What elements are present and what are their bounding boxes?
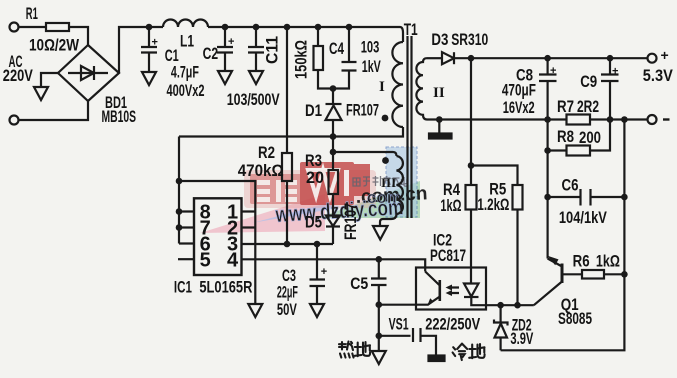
node: 5.3V rail xyxy=(544,55,551,62)
svg-text:C6: C6 xyxy=(562,176,579,195)
svg-text:+: + xyxy=(228,36,234,48)
watermark blue dashed box xyxy=(386,147,417,217)
wire: +DC rail after L1 xyxy=(208,27,403,42)
node: drain line D1 xyxy=(330,133,337,140)
watermark pink triangle xyxy=(200,194,325,233)
wire: C6/Q1 left rail xyxy=(546,151,548,259)
svg-text:VS1: VS1 xyxy=(389,315,409,334)
wire R4/R5 branch xyxy=(471,166,518,186)
svg-text:4: 4 xyxy=(227,250,239,272)
wire: secondary return rail xyxy=(427,118,648,120)
capacitor VS1 xyxy=(379,335,411,337)
watermark green triangle xyxy=(318,181,420,218)
wire opto emitter to C5 line xyxy=(379,304,416,306)
wire bridge left to ground xyxy=(41,73,58,87)
node: VS1 branch xyxy=(376,333,383,340)
svg-text:I: I xyxy=(379,79,385,95)
svg-text:1.2kΩ: 1.2kΩ xyxy=(477,195,509,214)
svg-text:4.7μF: 4.7μF xyxy=(171,63,199,82)
resistor R2 xyxy=(282,153,292,181)
wire IC1 pins 8/7/6 bus xyxy=(178,137,180,244)
svg-text:D5: D5 xyxy=(305,213,322,232)
svg-text:D1: D1 xyxy=(305,101,322,120)
transistor (IC2 photo-transistor) xyxy=(425,272,440,286)
resistor R5 xyxy=(513,185,523,210)
resistor R3 xyxy=(332,152,334,170)
ground (C2) xyxy=(218,71,232,84)
svg-text:D3: D3 xyxy=(431,30,448,49)
svg-text:S8085: S8085 xyxy=(558,309,592,328)
svg-text:5L0165R: 5L0165R xyxy=(199,278,252,297)
wire winding II ground stub xyxy=(438,120,440,134)
svg-text:C4: C4 xyxy=(329,39,344,58)
node: snubber junction xyxy=(330,85,337,92)
svg-text:+: + xyxy=(612,66,618,78)
wire R6 to right rail xyxy=(604,273,624,275)
capacitor C6 xyxy=(548,196,581,198)
wire IC1 pin5 stub xyxy=(178,258,194,260)
node: return rail xyxy=(436,116,443,123)
node: D3 cathode xyxy=(468,55,475,62)
transistor Q1 xyxy=(561,264,564,284)
zener ZD2 xyxy=(494,320,508,326)
bridge rectifier BD1 xyxy=(58,45,119,101)
svg-text:FR107: FR107 xyxy=(346,101,379,120)
svg-text:IC1: IC1 xyxy=(174,278,192,297)
node: C5 / opto emitter xyxy=(376,301,383,308)
diode (IC2 LED) xyxy=(464,284,479,297)
svg-text:470kΩ: 470kΩ xyxy=(238,161,284,180)
node: IC1 left bus xyxy=(176,178,183,185)
svg-text:104/1kV: 104/1kV xyxy=(559,208,607,227)
svg-text:C9: C9 xyxy=(580,72,597,91)
wire: IC pin4 line xyxy=(242,259,426,271)
svg-text:16Vx2: 16Vx2 xyxy=(503,98,535,117)
svg-text:PC817: PC817 xyxy=(430,246,466,265)
svg-text:II: II xyxy=(433,85,445,101)
light arrows (IC2) xyxy=(449,288,459,294)
watermark red glyph band xyxy=(244,170,376,208)
label hot ground (drawn CJK: di) xyxy=(355,342,370,356)
svg-text:5: 5 xyxy=(200,250,211,272)
node: pin4 line C5 xyxy=(376,256,383,263)
node: R6 right xyxy=(621,271,628,278)
ground (hot, C5 line) xyxy=(372,351,386,364)
wire: +DC rail xyxy=(119,27,163,73)
label cold ground (drawn CJK: di) xyxy=(469,344,484,358)
resistor R4 xyxy=(466,185,477,210)
svg-text:5.3V: 5.3V xyxy=(643,66,674,85)
capacitor C5 xyxy=(378,259,380,278)
input terminal bottom xyxy=(10,116,19,125)
wire drain to R3 node xyxy=(332,137,334,153)
wire winding III bottom lead xyxy=(380,214,397,226)
wire: right feedback rail xyxy=(501,120,625,351)
transformer T1 secondary winding II xyxy=(416,58,427,119)
watermark small gray text xyxy=(353,176,407,186)
resistor R6 xyxy=(582,270,604,279)
wire ZD2 top xyxy=(500,305,502,322)
output terminal plus xyxy=(648,54,657,63)
wire: drain line xyxy=(179,127,403,137)
svg-text:R1: R1 xyxy=(26,4,38,23)
node: emitter line xyxy=(497,302,504,309)
op-amp U1 opto-coupler IC2 PC817 box xyxy=(416,268,486,310)
ground (bridge AC side) xyxy=(34,87,48,100)
svg-text:150kΩ: 150kΩ xyxy=(292,40,311,79)
capacitor C2 xyxy=(224,27,226,46)
capacitor C11 xyxy=(255,27,257,46)
node: R4/R5 branch xyxy=(468,162,475,169)
winding I phase dot xyxy=(382,115,389,122)
svg-text:220V: 220V xyxy=(3,66,33,85)
svg-text:C2: C2 xyxy=(203,44,219,63)
node: R8 branch xyxy=(544,147,551,154)
wire R2 to pin3 line xyxy=(286,181,288,244)
capacitor C8 xyxy=(546,58,548,73)
svg-text:R7: R7 xyxy=(557,97,574,116)
wire winding III top lead xyxy=(333,152,397,156)
node: pin3 line xyxy=(284,241,291,248)
ground (C11) xyxy=(249,71,263,84)
diode D1 xyxy=(332,89,334,105)
wire R2 startup from rail xyxy=(286,27,288,153)
svg-text:ZD2: ZD2 xyxy=(512,316,532,335)
svg-text:C5: C5 xyxy=(350,274,368,293)
svg-text:SR310: SR310 xyxy=(451,30,488,49)
capacitor C9 xyxy=(609,58,611,73)
wire input top to R1 xyxy=(19,26,47,28)
transformer T1 primary winding I xyxy=(392,42,403,127)
svg-text:2R2: 2R2 xyxy=(577,97,599,116)
wire D3 node down to R4 xyxy=(470,58,472,185)
svg-text:T1: T1 xyxy=(404,20,418,39)
svg-text:+: + xyxy=(661,47,669,63)
ground bar (cold ground) xyxy=(429,356,445,362)
label hot ground (drawn CJK: re) xyxy=(339,342,354,358)
wire IC1 pin1/pin2 to ground bus xyxy=(179,181,255,304)
IC1 5L0165R box xyxy=(194,198,242,275)
input terminal top xyxy=(10,23,19,32)
svg-text:20: 20 xyxy=(306,168,324,187)
svg-text:1kV: 1kV xyxy=(362,57,381,76)
resistor R7 xyxy=(567,115,591,125)
wire R5 down xyxy=(516,210,518,306)
transformer T1 core xyxy=(408,36,412,218)
svg-text:+: + xyxy=(152,37,158,49)
svg-text:L1: L1 xyxy=(180,32,194,51)
svg-text:470μF: 470μF xyxy=(502,80,536,99)
ground (IC1) xyxy=(248,304,262,317)
svg-text:222/250V: 222/250V xyxy=(425,315,480,334)
ground (C1) xyxy=(142,72,156,85)
winding III phase dot xyxy=(382,157,389,164)
svg-text:22μF: 22μF xyxy=(277,283,298,302)
resistor R1 xyxy=(46,23,69,31)
svg-text:MB10S: MB10S xyxy=(102,107,137,126)
inductor L1 xyxy=(163,20,208,27)
svg-text:10Ω/2W: 10Ω/2W xyxy=(29,36,80,55)
svg-text:+: + xyxy=(321,266,327,278)
svg-text:C11: C11 xyxy=(263,36,282,64)
svg-text:103/500V: 103/500V xyxy=(227,90,280,109)
svg-text:1kΩ: 1kΩ xyxy=(596,252,620,271)
resistor R8 xyxy=(567,146,591,156)
watermark lavender sliver xyxy=(252,202,332,223)
node: R3 / winding III xyxy=(330,149,337,156)
svg-text:1kΩ: 1kΩ xyxy=(440,196,461,215)
label cold ground (drawn CJK: leng) xyxy=(453,344,468,360)
output minus dash xyxy=(663,118,670,120)
wire Q1 base to R6 xyxy=(562,273,582,275)
wire R8 left branch xyxy=(548,120,567,151)
node: C6 ends xyxy=(544,194,551,201)
capacitor C3 xyxy=(316,244,318,280)
svg-text:200: 200 xyxy=(579,128,601,147)
wire: IC pin3 line xyxy=(242,243,334,245)
capacitor C4 xyxy=(348,27,350,62)
transformer T1 aux winding III xyxy=(397,156,403,214)
diode D3 xyxy=(427,57,442,59)
wire input bottom to bridge xyxy=(19,101,89,120)
svg-text:R2: R2 xyxy=(258,143,275,162)
node: DC rail junctions xyxy=(146,24,153,31)
svg-text:400Vx2: 400Vx2 xyxy=(167,81,205,100)
svg-text:50V: 50V xyxy=(277,300,297,319)
wire R4 to opto LED xyxy=(470,210,472,284)
ground (winding III) xyxy=(373,226,388,240)
svg-text:III: III xyxy=(381,175,396,190)
svg-text:+: + xyxy=(550,65,556,77)
svg-text:R8: R8 xyxy=(557,127,574,146)
ground (C3) xyxy=(310,304,324,317)
capacitor C1 xyxy=(148,27,150,46)
svg-text:FR107: FR107 xyxy=(341,203,360,240)
output terminal minus xyxy=(648,115,657,124)
wire R1 to bridge top xyxy=(69,27,88,45)
svg-text:103: 103 xyxy=(361,38,380,57)
resistor 150k snubber xyxy=(317,27,319,46)
ground bar (winding II return) xyxy=(429,134,452,139)
svg-text:R6: R6 xyxy=(573,252,590,271)
wire: +5.3V rail xyxy=(454,57,648,59)
wire 150k to snubber node xyxy=(318,70,333,89)
wire R8 right branch xyxy=(590,120,610,151)
diode D5 xyxy=(332,194,334,216)
